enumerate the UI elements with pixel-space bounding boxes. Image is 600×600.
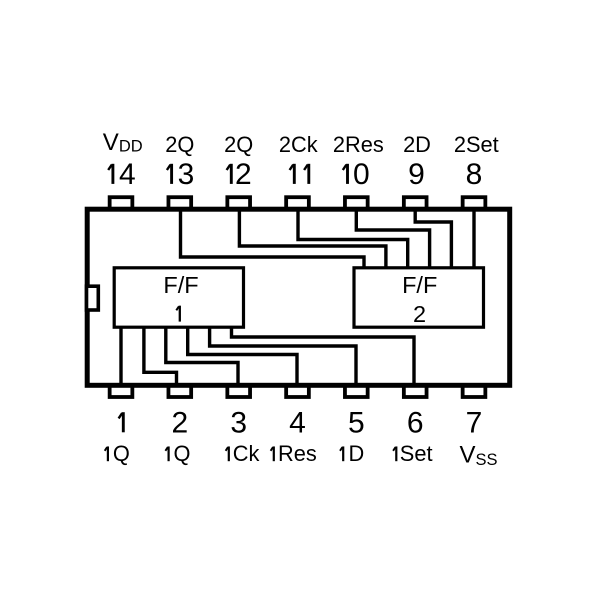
svg-text:F/F: F/F [402,272,437,298]
svg-text:9: 9 [408,158,425,191]
svg-text:D: D [349,441,365,466]
svg-text:F/F: F/F [163,272,198,298]
svg-text:4: 4 [119,158,136,191]
svg-text:4: 4 [289,407,306,440]
svg-text:2Q: 2Q [165,132,194,157]
svg-text:2: 2 [413,301,426,327]
svg-text:Res: Res [278,441,317,466]
svg-text:Set: Set [400,441,433,466]
svg-text:2: 2 [171,407,188,440]
svg-text:Q: Q [174,441,191,466]
svg-text:2Set: 2Set [454,132,499,157]
svg-text:2: 2 [235,158,252,191]
svg-text:5: 5 [348,407,365,440]
svg-text:2Res: 2Res [333,132,384,157]
svg-text:6: 6 [407,407,424,440]
svg-text:Q: Q [113,441,130,466]
svg-text:8: 8 [466,158,483,191]
svg-text:0: 0 [353,158,370,191]
svg-text:2Ck: 2Ck [279,132,318,157]
svg-text:3: 3 [178,158,195,191]
svg-text:2D: 2D [403,132,431,157]
svg-text:3: 3 [230,407,247,440]
svg-text:2Q: 2Q [224,132,253,157]
svg-text:Ck: Ck [233,441,260,466]
svg-text:7: 7 [466,407,483,440]
